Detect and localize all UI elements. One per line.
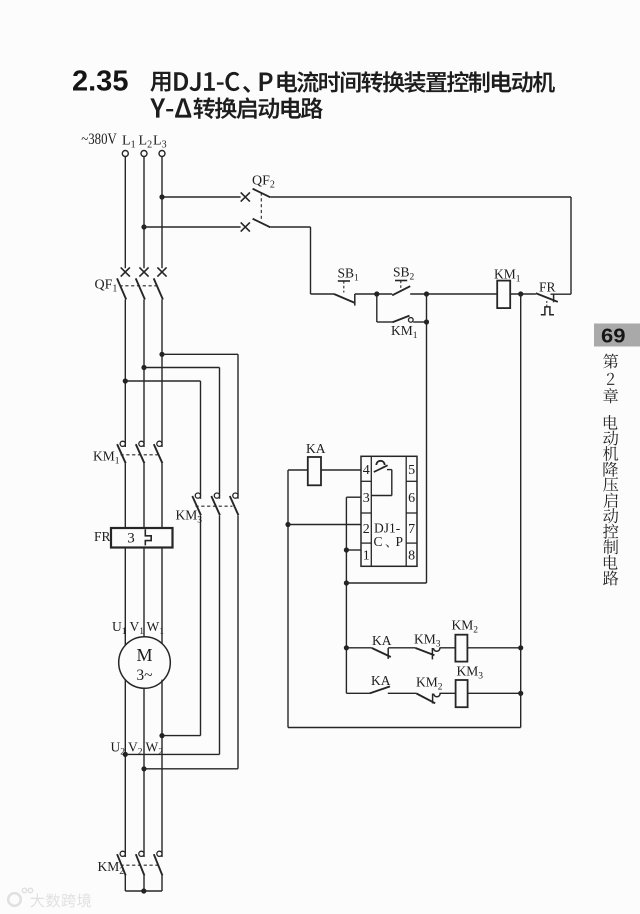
svg-text:3~: 3~ [136,667,152,684]
svg-text:7: 7 [408,522,415,537]
svg-text:C: C [374,534,383,549]
svg-text:5: 5 [408,463,415,478]
svg-text:6: 6 [408,491,415,506]
svg-text:M: M [136,645,152,665]
svg-text:69: 69 [601,325,626,347]
svg-text:KA: KA [372,633,392,648]
svg-text:3: 3 [127,531,135,547]
svg-text:P: P [396,534,404,549]
svg-text:2: 2 [363,522,370,537]
svg-text:FR: FR [539,280,556,295]
svg-text:8: 8 [408,549,415,564]
svg-text:FR: FR [94,529,111,544]
svg-text:KA: KA [306,441,326,456]
svg-text:3: 3 [363,491,370,506]
svg-text:4: 4 [363,463,370,478]
svg-text:~380V: ~380V [81,131,117,148]
svg-text:2.35: 2.35 [72,66,128,98]
svg-text:1: 1 [363,549,370,564]
svg-text:KA: KA [371,673,391,688]
